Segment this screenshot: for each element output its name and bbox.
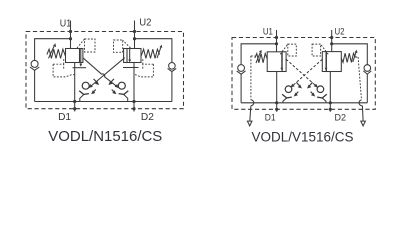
pilot check PC4 bypass arrow (308, 82, 312, 87)
check valve CV2 seat (168, 68, 177, 71)
node D2 at boundary (132, 107, 135, 110)
svg-text:D1: D1 (58, 112, 71, 123)
relief valve B1 spring (47, 49, 66, 58)
svg-text:U2: U2 (139, 17, 152, 28)
node U2 wire junction (133, 37, 136, 40)
pilot check PC3 seat (282, 94, 292, 98)
node U1 at boundary (69, 30, 72, 33)
wire U1 to check valve CV3 (241, 44, 276, 65)
pilot line B2 to pilot check PC1 (89, 58, 124, 88)
relief valve B1 flow arrow (80, 49, 82, 64)
pilot line B3 to pilot check PC4 (dashed) (286, 59, 317, 86)
relief valve B2 pilot piston (124, 49, 127, 63)
wire PC1 to bottom rail (80, 95, 84, 102)
check valve CV3 seat (237, 71, 246, 74)
check valve CV3 ball (238, 65, 245, 72)
relief valve B3 flow arrow (281, 53, 283, 67)
node U1 wire junction (69, 37, 72, 40)
check valve CV1 ball (31, 60, 38, 67)
relief valve B4 body (326, 52, 341, 72)
node D2 on bottom rail (329, 101, 332, 104)
port U1 line (70, 21, 72, 49)
vent drain line to tank (250, 106, 251, 122)
pilot check PC2 flow arrow (110, 79, 114, 84)
pilot line B3 arrowhead (314, 84, 318, 88)
check valve CV4 ball (364, 65, 371, 72)
pilot check PC3 ball (285, 86, 292, 93)
pilot check PC1 seat (79, 91, 89, 95)
node D2 at boundary (329, 108, 332, 111)
relief valve B2 piston bar (123, 67, 139, 69)
wire CV3 to bottom rail (240, 74, 242, 103)
pilot check PC4 seat (317, 94, 327, 98)
relief valve B1 pilot piston (80, 49, 83, 63)
vent drain arrowhead (open) (361, 121, 366, 126)
port U1 line (276, 30, 278, 52)
svg-text:VODL/N1516/CS: VODL/N1516/CS (48, 129, 162, 145)
node D1 at boundary (275, 108, 278, 111)
port D1 line (276, 72, 278, 112)
svg-text:D1: D1 (265, 112, 276, 123)
port U2 line (134, 21, 136, 49)
relief valve B4 pilot piston (322, 52, 326, 72)
relief valve B4 flow arrow (325, 53, 327, 68)
node U2 at boundary (133, 30, 136, 33)
relief valve B1 piston bar (73, 67, 87, 69)
node U1 at boundary (275, 36, 278, 39)
port U2 line (331, 30, 333, 52)
port D2 line (133, 63, 135, 112)
wire U2 to check valve CV2 (135, 39, 172, 63)
pilot check PC3 bypass arrow (296, 82, 300, 87)
svg-text:U1: U1 (263, 26, 273, 37)
bottom rail wire (241, 102, 367, 104)
relief valve B2 spring (141, 49, 160, 58)
check valve CV2 ball (169, 63, 176, 70)
node D1 on bottom rail (73, 100, 76, 103)
pilot line B1 arrowhead (115, 84, 119, 88)
relief valve B2 vent passage (dashed) (134, 59, 153, 77)
relief valve B3 spring adjust arrow (256, 52, 260, 63)
wire PC4 to bottom rail (323, 98, 327, 103)
valve body boundary (dashed) (26, 32, 184, 109)
relief valve B3 pilot piston (282, 52, 286, 72)
pilot check PC1 flow arrow (93, 90, 96, 93)
wire CV4 to bottom rail (366, 74, 368, 103)
pilot check PC4 ball (317, 86, 324, 93)
node D1 on bottom rail (275, 101, 278, 104)
relief valve B3 spring (255, 54, 267, 63)
wire U2 to check valve CV4 (332, 44, 368, 65)
wire U1 to check valve CV1 (35, 39, 71, 61)
pilot check PC1 ball (82, 82, 89, 89)
svg-text:U2: U2 (335, 25, 345, 36)
port D2 line (329, 72, 331, 112)
check valve CV4 seat (363, 71, 371, 74)
node D2 on bottom rail (132, 100, 135, 103)
relief valve B1 vent passage (dashed) (53, 59, 75, 77)
svg-text:D2: D2 (335, 112, 347, 123)
relief valve B3 vent drain line (dashed) (251, 56, 255, 100)
wire PC2 to bottom rail (124, 95, 128, 102)
svg-text:D2: D2 (141, 112, 154, 123)
pilot line B1 to pilot check PC2 (83, 58, 118, 88)
vent drain arrowhead (open) (247, 121, 252, 126)
relief valve B3 body (267, 52, 282, 72)
pilot check PC4 flow arrow (311, 92, 314, 95)
relief valve B4 vent drain line (dashed) (355, 57, 361, 100)
valve body boundary (dashed) (232, 38, 375, 110)
relief valve B2 flow arrow (129, 49, 131, 60)
relief valve B2 body (127, 49, 141, 63)
vent drain hop over bottom rail (251, 100, 254, 106)
svg-text:U1: U1 (60, 18, 72, 29)
node U1 wire junction (275, 42, 278, 45)
wire CV1 to bottom rail (34, 70, 36, 101)
vent drain line to tank (361, 106, 364, 122)
vent drain hop over bottom rail (359, 100, 362, 106)
relief valve B2 pilot chamber (dashed) (114, 40, 131, 52)
relief valve B1 pilot chamber (dashed) (77, 39, 95, 52)
pilot check PC3 flow arrow (295, 92, 298, 95)
svg-text:VODL/V1516/CS: VODL/V1516/CS (252, 130, 354, 146)
node D1 at boundary (73, 107, 76, 110)
node U2 at boundary (330, 36, 333, 39)
pilot check PC2 lower arrow (112, 90, 115, 93)
relief valve B3 pilot chamber (dashed) (280, 44, 296, 56)
pilot check PC2 ball (118, 82, 125, 89)
relief valve B4 spring (341, 53, 355, 62)
pilot line B4 arrowhead (291, 84, 295, 88)
relief valve B2 spring adjust arrow (157, 48, 161, 59)
check valve CV1 seat (30, 67, 39, 70)
node U2 wire junction (330, 42, 333, 45)
pilot line B4 to pilot check PC3 (dashed) (292, 59, 323, 86)
wire PC3 to bottom rail (283, 98, 287, 103)
pilot check PC2 seat (119, 91, 129, 95)
port D1 line (74, 63, 76, 112)
relief valve B4 pilot chamber (dashed) (312, 44, 328, 56)
relief valve B1 spring adjust arrow (49, 46, 55, 58)
relief valve B1 body (66, 49, 80, 63)
pilot check PC1 bypass arrow (94, 79, 98, 84)
wire CV2 to bottom rail (171, 72, 173, 102)
pilot line B2 arrowhead (89, 84, 93, 88)
relief valve B4 spring adjust arrow (353, 52, 356, 62)
bottom rail wire (35, 101, 172, 103)
